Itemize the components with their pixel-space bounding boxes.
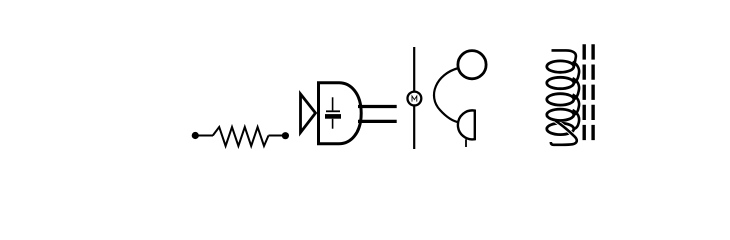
capacitor C1 inside gate	[325, 97, 341, 128]
wire connector turn 2	[573, 78, 580, 99]
lamp/bulb circle	[458, 51, 486, 79]
motor M1	[408, 92, 422, 106]
resistor zigzag	[213, 127, 269, 146]
wire vertical	[413, 47, 415, 149]
wire	[197, 135, 213, 137]
coil loop 4	[547, 109, 574, 120]
coil loop 1	[547, 61, 574, 72]
wire output pair	[358, 107, 397, 122]
coil loop 2	[547, 77, 574, 88]
transistor/buffer triangle Q1	[301, 94, 316, 133]
core dashed line 1	[583, 44, 586, 140]
bottom lead wrap over-crossing	[551, 121, 577, 145]
op-amp/AND gate U1	[319, 83, 362, 144]
coil loop 5	[547, 123, 574, 134]
wire	[269, 135, 285, 137]
inductor L1 coil	[547, 50, 579, 144]
resistor R1	[192, 127, 289, 146]
node left terminal dot	[192, 132, 199, 139]
top lead with hook	[552, 50, 576, 66]
wire connector turn 3	[573, 95, 580, 115]
wire curved	[434, 68, 459, 122]
node right terminal dot	[282, 132, 289, 139]
wire connector turn 1	[573, 62, 580, 83]
wire stub	[465, 139, 467, 147]
earpiece/speaker LS1	[458, 110, 475, 148]
coil loop 3	[547, 94, 574, 105]
wire connector turn 4	[573, 110, 580, 129]
core dashed line 2	[591, 44, 594, 140]
